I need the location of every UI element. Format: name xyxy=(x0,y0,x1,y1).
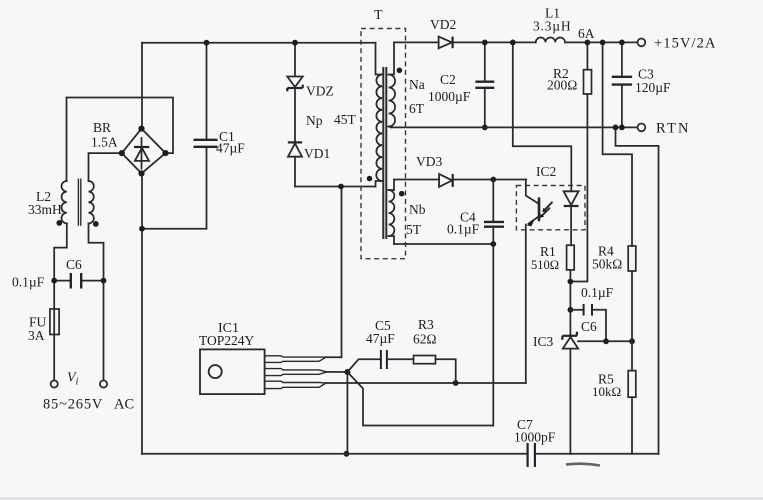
svg-text:1000pF: 1000pF xyxy=(514,430,556,445)
svg-text:200Ω: 200Ω xyxy=(547,78,577,93)
svg-text:0.1µF: 0.1µF xyxy=(581,285,614,300)
svg-text:Nb: Nb xyxy=(409,202,426,217)
svg-text:VD1: VD1 xyxy=(304,146,330,161)
svg-text:45T: 45T xyxy=(334,112,357,127)
svg-text:IC3: IC3 xyxy=(533,334,554,349)
svg-text:VD2: VD2 xyxy=(430,17,456,32)
svg-text:120µF: 120µF xyxy=(635,80,671,95)
svg-text:Np: Np xyxy=(306,113,323,128)
svg-text:33mH: 33mH xyxy=(28,202,62,217)
svg-text:50kΩ: 50kΩ xyxy=(592,257,622,272)
svg-text:T: T xyxy=(374,8,383,23)
svg-text:1000µF: 1000µF xyxy=(428,89,471,104)
svg-text:10kΩ: 10kΩ xyxy=(592,384,621,399)
svg-text:62Ω: 62Ω xyxy=(413,332,437,347)
svg-text:0.1µF: 0.1µF xyxy=(12,275,45,290)
svg-text:AC: AC xyxy=(114,397,134,413)
svg-text:5T: 5T xyxy=(406,222,422,237)
svg-text:Na: Na xyxy=(409,77,425,92)
svg-text:RTN: RTN xyxy=(656,121,691,137)
svg-text:TOP224Y: TOP224Y xyxy=(199,333,255,348)
svg-text:+15V/2A: +15V/2A xyxy=(654,36,717,52)
svg-text:6T: 6T xyxy=(409,101,425,116)
svg-text:VD3: VD3 xyxy=(416,154,442,169)
svg-text:IC2: IC2 xyxy=(536,164,556,179)
svg-text:C6: C6 xyxy=(581,319,597,334)
svg-text:0.1µF: 0.1µF xyxy=(447,222,480,237)
svg-text:C6: C6 xyxy=(66,257,82,272)
svg-text:47µF: 47µF xyxy=(366,331,395,346)
svg-text:R3: R3 xyxy=(418,317,434,332)
svg-text:C2: C2 xyxy=(440,72,456,87)
svg-text:BR: BR xyxy=(93,120,111,135)
svg-text:R1: R1 xyxy=(540,244,556,259)
svg-text:3A: 3A xyxy=(28,328,45,343)
svg-text:47µF: 47µF xyxy=(216,141,245,156)
svg-text:6A: 6A xyxy=(578,26,595,41)
svg-text:Vi: Vi xyxy=(67,371,79,388)
svg-text:1.5A: 1.5A xyxy=(91,135,118,150)
svg-text:VDZ: VDZ xyxy=(306,84,334,99)
svg-text:510Ω: 510Ω xyxy=(531,258,559,272)
svg-text:85~265V: 85~265V xyxy=(43,397,103,413)
svg-text:3.3µH: 3.3µH xyxy=(533,19,571,34)
